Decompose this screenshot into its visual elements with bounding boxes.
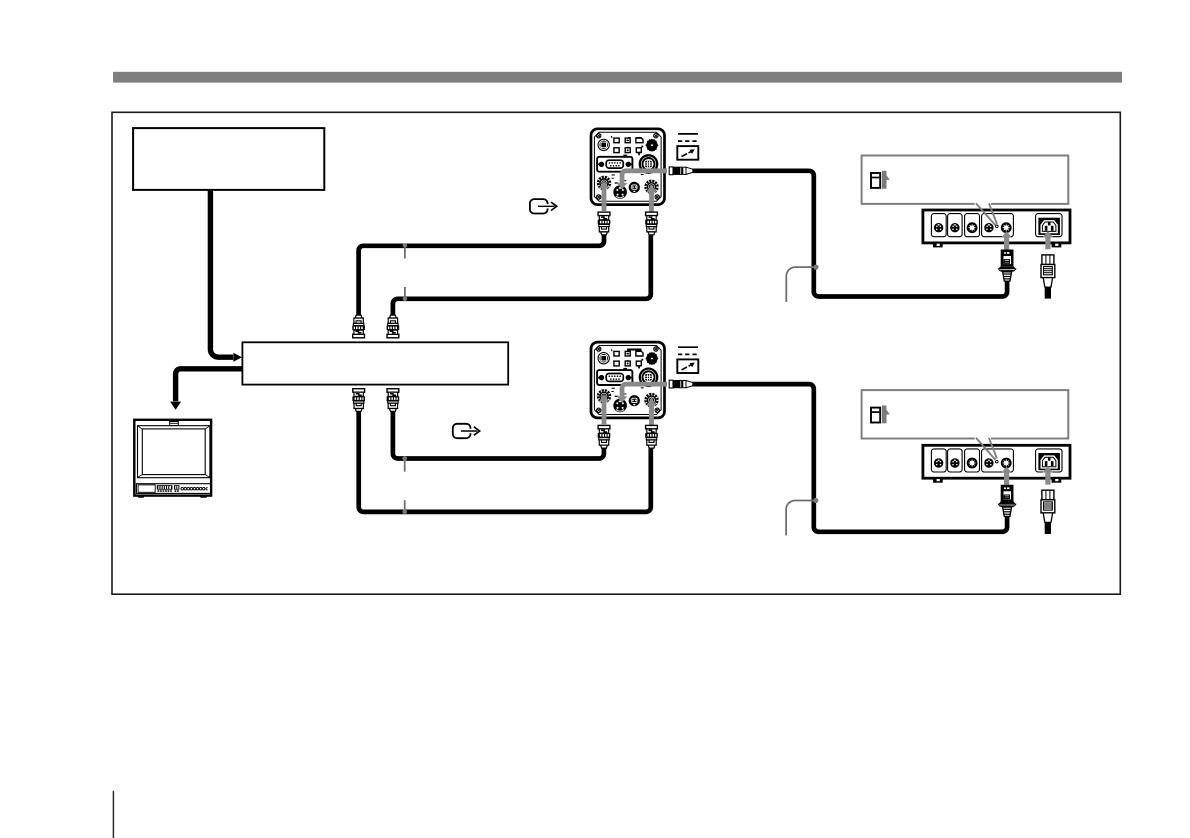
cable camera1-left to B2 top-left xyxy=(359,232,604,317)
BNC plug down onto B2 left xyxy=(352,315,365,338)
camera 2 rear panel xyxy=(591,342,665,418)
camera 1 insert arrow left xyxy=(599,182,610,212)
insert arrow AC device2 xyxy=(1043,466,1054,484)
page icon camera1 xyxy=(677,134,698,160)
diagram frame xyxy=(112,112,1120,594)
AC cord device2 xyxy=(1045,520,1051,534)
camera 2 gray camera-cable with insert arrow xyxy=(617,384,667,403)
camera 2 dip-switch bracket mark xyxy=(628,350,641,352)
callout box 2 xyxy=(862,390,1069,438)
title bar xyxy=(113,72,1122,83)
camera 2 insert arrow left xyxy=(599,395,610,425)
callout pointer 1 xyxy=(975,202,997,225)
label box B2 xyxy=(242,342,508,384)
camera 1 gray camera-cable with insert arrow xyxy=(617,171,667,190)
tick on cable C1 xyxy=(403,243,408,258)
AC plug device2 xyxy=(1041,490,1055,534)
insert arrow DIN device1 xyxy=(1001,231,1012,249)
long cable camera1 to device1 plug xyxy=(692,171,1007,297)
camera 2 insert arrow right xyxy=(646,399,657,429)
device 1 panel xyxy=(923,210,1070,247)
page icon camera2 xyxy=(677,347,698,373)
leader on cable R2 xyxy=(786,498,818,536)
cable camera1-right to B2 top-right xyxy=(393,232,651,317)
tick on cable C3 xyxy=(402,500,407,514)
camera 1 cable joint connector xyxy=(669,167,693,175)
callout pointer 2 xyxy=(975,437,997,460)
BNC plug down onto B2 right xyxy=(387,315,400,338)
BNC plug up under B2 left xyxy=(352,389,365,412)
insert arrow AC device1 xyxy=(1043,231,1054,249)
camera 2 cable joint connector xyxy=(669,380,693,388)
flow arrow B2 to monitor xyxy=(176,369,243,401)
monitor xyxy=(134,420,211,498)
camera 2 BNC plug right xyxy=(645,425,658,448)
insert arrow DIN device2 xyxy=(1001,467,1012,485)
cable B2 bottom-left to camera2-right xyxy=(359,410,651,512)
camera 1 insert arrow right xyxy=(646,185,657,215)
camera 1 rear panel xyxy=(591,129,665,205)
flow arrow B1 to B2 xyxy=(210,190,233,358)
page margin mark bottom-left xyxy=(112,791,114,838)
out icon top xyxy=(530,199,557,213)
camera 2 BNC plug left xyxy=(598,425,611,448)
camera 1 BNC plug left xyxy=(598,212,611,235)
label box B1 xyxy=(133,128,324,190)
AC plug device1 xyxy=(1041,255,1055,299)
leader on cable R1 xyxy=(786,265,818,303)
tick on cable C2 xyxy=(403,287,408,301)
camera 1 BNC plug right xyxy=(645,212,658,235)
DIN plug device1 xyxy=(998,250,1016,282)
cable B2 bottom-right to camera2-left xyxy=(393,410,604,458)
BNC plug up under B2 right xyxy=(387,389,400,412)
callout box 1 xyxy=(862,156,1069,204)
AC cord device1 xyxy=(1045,285,1051,299)
out icon bottom xyxy=(453,424,480,438)
device 2 panel xyxy=(923,445,1070,482)
tick on cable C4 xyxy=(402,456,407,472)
long cable camera2 to device2 plug xyxy=(692,384,1007,532)
DIN plug device2 xyxy=(998,485,1016,517)
